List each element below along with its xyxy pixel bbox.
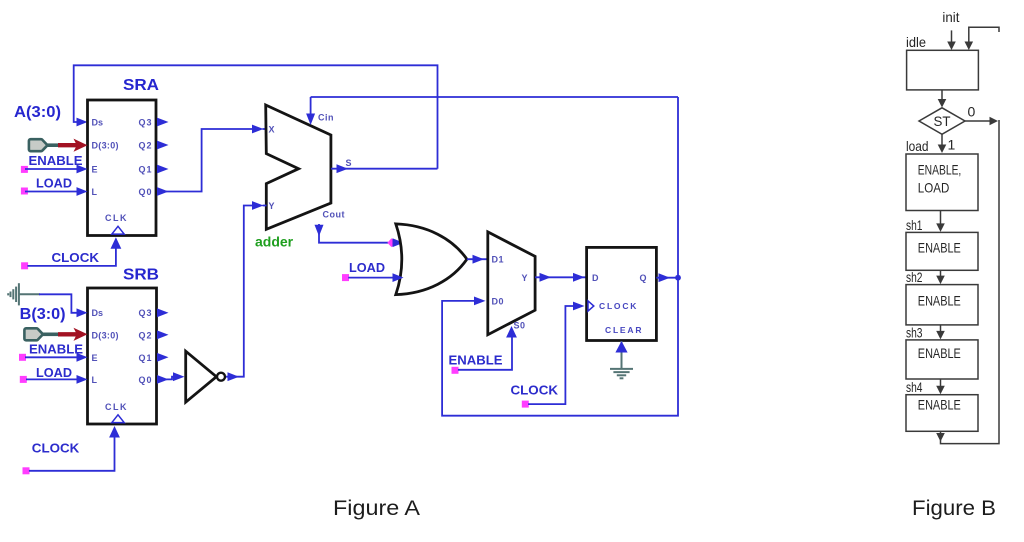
- wire S output: [331, 168, 438, 170]
- wire 0 branch to loop: [965, 120, 996, 122]
- svg-text:ENABLE,: ENABLE,: [918, 161, 962, 177]
- node Cin arrow down: [306, 114, 315, 126]
- decision diamond ST: [919, 108, 965, 135]
- svg-text:Cin: Cin: [318, 112, 334, 122]
- svg-text:ENABLE: ENABLE: [918, 292, 961, 308]
- wire X arrow stub: [263, 128, 267, 130]
- arrow load to sh1: [940, 211, 942, 230]
- junction dot Q net: [675, 275, 681, 281]
- pin Q0 output arrow SRB: [157, 375, 169, 384]
- svg-text:LOAD: LOAD: [36, 365, 72, 380]
- arrow init into idle: [951, 30, 953, 47]
- svg-text:Q2: Q2: [139, 140, 153, 150]
- wire Q0 to inverter: [166, 377, 175, 380]
- wire DFF Q feedback to mux D0: [442, 97, 678, 416]
- state box sh4: ENABLE: [906, 395, 978, 432]
- arrow sh1 to sh2: [940, 270, 942, 281]
- svg-text:Figure A: Figure A: [333, 496, 421, 520]
- svg-text:L: L: [92, 375, 98, 385]
- svg-text:D(3:0): D(3:0): [92, 140, 119, 150]
- junction diamond at OR input: [387, 238, 395, 247]
- node E input arrow SRA: [77, 165, 88, 174]
- svg-text:Cout: Cout: [323, 209, 346, 219]
- state box sh2: ENABLE: [906, 285, 978, 325]
- adder U1: [266, 105, 352, 229]
- svg-text:CLK: CLK: [105, 402, 128, 412]
- svg-text:ENABLE: ENABLE: [29, 342, 83, 357]
- node S0 arrow up: [506, 326, 517, 338]
- svg-text:Q0: Q0: [139, 375, 153, 385]
- pin CLK wedge SRB: [112, 415, 124, 423]
- svg-text:SRB: SRB: [123, 267, 159, 284]
- svg-text:ENABLE: ENABLE: [918, 397, 961, 413]
- pin Q0 output arrow SRA: [157, 187, 169, 196]
- node OR output arrow: [473, 255, 485, 264]
- svg-text:SRA: SRA: [123, 77, 159, 94]
- wire Cin drop: [310, 97, 312, 116]
- pin ENABLE input square (SRA): [21, 166, 28, 173]
- svg-text:idle: idle: [906, 34, 926, 50]
- svg-text:Y: Y: [522, 273, 528, 283]
- svg-text:CLOCK: CLOCK: [32, 441, 80, 456]
- svg-text:adder: adder: [255, 234, 294, 250]
- bus connector B(3:0): [24, 328, 59, 340]
- svg-text:D1: D1: [492, 255, 505, 265]
- mux M1: [488, 232, 535, 335]
- svg-text:Ds: Ds: [92, 308, 104, 318]
- arrow down before loop: [936, 433, 945, 442]
- svg-text:Q3: Q3: [139, 117, 153, 127]
- node inverter input arrow: [173, 372, 185, 381]
- register SRB: [88, 267, 160, 425]
- svg-text:ENABLE: ENABLE: [449, 353, 503, 368]
- pin Q3 output arrow SRA: [157, 118, 169, 127]
- node inverter output arrow: [228, 372, 240, 381]
- pin Q2 output arrow SRA: [157, 141, 169, 150]
- svg-text:load: load: [906, 138, 929, 154]
- svg-text:LOAD: LOAD: [918, 180, 950, 196]
- svg-text:ENABLE: ENABLE: [918, 345, 961, 361]
- svg-text:S: S: [346, 158, 352, 168]
- state box sh3: ENABLE: [906, 340, 978, 379]
- pin CLK wedge SRA: [112, 226, 124, 234]
- svg-text:Figure B: Figure B: [912, 496, 996, 520]
- bus arrow into D(3:0) SRB: [58, 328, 88, 341]
- wire CLOCK to DFF: [528, 306, 575, 404]
- wire ENABLE to E (SRA): [25, 168, 80, 170]
- wire loop return top: [969, 27, 999, 47]
- node Ds input arrow SRA: [77, 118, 88, 127]
- svg-text:sh4: sh4: [906, 379, 923, 395]
- svg-text:CLK: CLK: [105, 213, 128, 223]
- node D input arrow: [573, 273, 585, 282]
- svg-text:Q3: Q3: [139, 308, 153, 318]
- flip-flop FD1: [587, 247, 657, 340]
- wire inverter output to adder Y: [226, 206, 254, 377]
- wire OR output to mux D1: [467, 258, 488, 260]
- svg-text:ENABLE: ENABLE: [918, 239, 961, 255]
- svg-text:A(3:0): A(3:0): [14, 104, 61, 121]
- node S output arrow: [337, 164, 349, 173]
- ground symbol DFF CLEAR: [610, 369, 633, 378]
- svg-text:E: E: [92, 165, 98, 175]
- svg-text:E: E: [92, 353, 98, 363]
- node OR top input arrow: [393, 238, 404, 247]
- svg-text:B(3:0): B(3:0): [20, 306, 66, 323]
- pin CLOCK input square (SRB): [23, 467, 30, 474]
- node CLK arrow up SRB: [109, 426, 120, 438]
- node E input arrow SRB: [77, 353, 88, 362]
- state box sh1: ENABLE: [906, 232, 978, 270]
- svg-text:L: L: [92, 187, 98, 197]
- wire CLEAR to ground: [621, 341, 623, 369]
- pin LOAD input square (SRA): [21, 188, 28, 195]
- svg-text:CLOCK: CLOCK: [511, 383, 559, 398]
- ground symbol B(3:0): [8, 283, 40, 305]
- pin Q1 output arrow SRA: [157, 165, 169, 174]
- node OR bottom input arrow: [393, 273, 404, 282]
- pin ENABLE input square (mux): [452, 367, 459, 374]
- node Cout arrow down: [315, 225, 324, 237]
- svg-text:D: D: [592, 273, 599, 283]
- wire mux Y to DFF D: [535, 276, 586, 278]
- svg-text:LOAD: LOAD: [36, 176, 72, 191]
- svg-text:ENABLE: ENABLE: [29, 153, 83, 168]
- svg-text:1: 1: [948, 137, 956, 153]
- arrow loop into idle: [965, 42, 974, 51]
- state box load: ENABLE, LOAD: [906, 154, 978, 211]
- node CLEAR arrow up: [615, 341, 627, 353]
- svg-text:X: X: [269, 124, 275, 134]
- wire LOAD to L (SRA): [25, 191, 80, 193]
- wire LOAD to OR input: [348, 277, 395, 279]
- wire DFF Q output: [656, 277, 678, 279]
- wire: S feedback top rail: [74, 65, 438, 168]
- wire Y arrow stub: [263, 205, 267, 207]
- wire CLOCK to CLK (SRB): [29, 434, 115, 471]
- node Ds input arrow SRB: [77, 308, 88, 317]
- svg-text:CLOCK: CLOCK: [52, 250, 100, 265]
- svg-text:ST: ST: [934, 113, 951, 129]
- arrow idle to ST: [941, 90, 943, 105]
- svg-text:Ds: Ds: [92, 117, 104, 127]
- arrow sh3 to sh4: [940, 379, 942, 392]
- pin ENABLE input square (SRB): [19, 354, 26, 361]
- or-gate G1: [396, 224, 467, 295]
- bus connector A(3:0): [29, 139, 59, 151]
- wire ENABLE to S0: [458, 336, 512, 370]
- wire SRA Q0 to adder X: [166, 129, 254, 192]
- node CLK arrow up SRA: [111, 237, 122, 249]
- node Q output arrow: [659, 273, 671, 282]
- svg-text:D(3:0): D(3:0): [92, 330, 119, 340]
- node D0 input arrow: [474, 297, 486, 306]
- bus arrow into D(3:0) SRA: [58, 139, 88, 152]
- wire: Cin rail from DFF Q: [311, 96, 678, 98]
- svg-text:Q1: Q1: [139, 353, 153, 363]
- register SRA: [88, 77, 160, 236]
- svg-text:CLEAR: CLEAR: [605, 325, 643, 335]
- pin LOAD input square (OR gate): [342, 274, 349, 281]
- svg-text:D0: D0: [492, 296, 505, 306]
- arrow ST to load: [941, 134, 943, 151]
- svg-text:Q1: Q1: [139, 165, 153, 175]
- inverter from SRB Q0: [186, 351, 225, 402]
- node Y output arrow: [540, 273, 552, 282]
- svg-text:Q0: Q0: [139, 187, 153, 197]
- wire ENABLE to E (SRB): [25, 356, 80, 358]
- state box idle: [907, 50, 979, 90]
- svg-text:Q: Q: [640, 273, 647, 283]
- node X input arrow: [252, 125, 264, 134]
- svg-text:init: init: [942, 9, 959, 25]
- arrow sh2 to sh3: [940, 325, 942, 337]
- node L input arrow SRA: [77, 187, 88, 196]
- pin Q2 output arrow SRB: [157, 330, 169, 339]
- svg-text:S0: S0: [514, 321, 526, 331]
- wire LOAD to L (SRB): [26, 378, 80, 380]
- wire ground to Ds SRB: [39, 294, 78, 313]
- wire sh4 to loop return: [941, 120, 1000, 444]
- wire Cout down to OR gate: [319, 224, 388, 243]
- svg-text:Q2: Q2: [139, 330, 153, 340]
- svg-text:LOAD: LOAD: [349, 260, 385, 275]
- pin LOAD input square (SRB): [20, 376, 27, 383]
- node Y input arrow: [252, 201, 264, 210]
- svg-text:CLOCK: CLOCK: [599, 301, 638, 311]
- svg-text:sh2: sh2: [906, 269, 923, 285]
- svg-text:sh3: sh3: [906, 324, 923, 340]
- svg-text:0: 0: [968, 104, 976, 120]
- svg-text:Y: Y: [269, 201, 275, 211]
- svg-text:sh1: sh1: [906, 217, 923, 233]
- node L input arrow SRB: [77, 375, 88, 384]
- node DFF clock input arrow: [573, 302, 585, 311]
- pin CLOCK input square (SRA): [21, 262, 28, 269]
- pin CLOCK input square (DFF): [522, 401, 529, 408]
- pin Q3 output arrow SRB: [157, 308, 169, 317]
- wire CLOCK to CLK (SRA): [27, 246, 116, 266]
- pin Q1 output arrow SRB: [157, 353, 169, 362]
- pin CLOCK wedge DFF: [588, 301, 594, 311]
